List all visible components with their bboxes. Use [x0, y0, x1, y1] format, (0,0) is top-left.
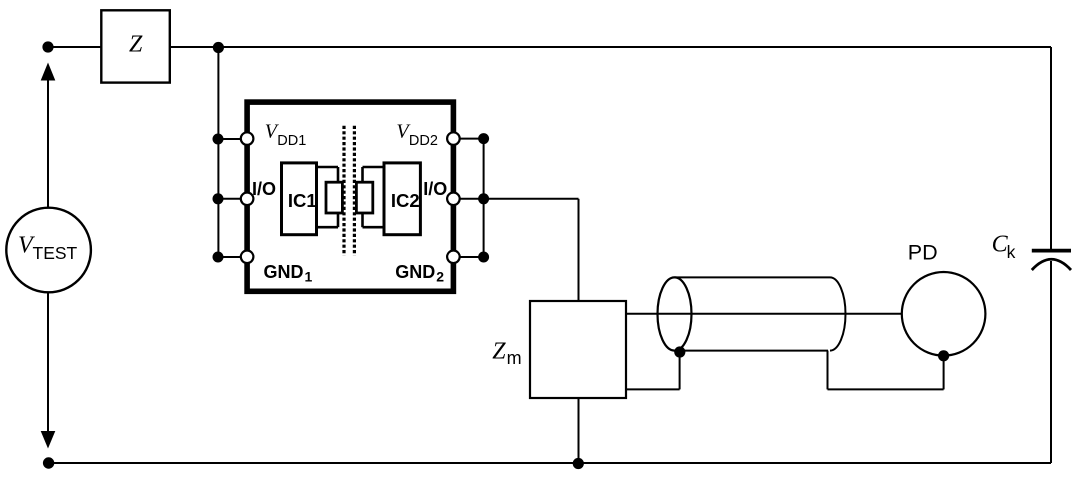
arrowhead up [41, 63, 56, 81]
wire IC2 coupling top [363, 166, 383, 169]
wire stub VDD2 [453, 138, 483, 140]
label Ck [992, 231, 1016, 262]
wire top rail from Z to right corner [170, 46, 1051, 48]
svg-text:Z: Z [129, 31, 143, 57]
label Zm [492, 338, 521, 368]
label VDD1 [265, 120, 307, 149]
svg-text:IC1: IC1 [288, 190, 317, 211]
svg-text:DD2: DD2 [409, 133, 438, 149]
isolation barrier dotted line left [342, 126, 345, 256]
coupling element left [326, 182, 342, 213]
wire stub I/O right [453, 198, 483, 200]
wire center conductor Zm to PD [626, 313, 902, 315]
label GND2 [395, 262, 444, 285]
wire Zm shield vertical [679, 350, 681, 389]
node PD bottom [938, 350, 949, 361]
node left rail GND1 [213, 252, 224, 263]
wire IC2 coupling bottom [363, 226, 383, 229]
wire IC1 coupling bottom [318, 226, 338, 229]
wire PD to shield horizontal [828, 388, 944, 390]
voltage source V_TEST [6, 63, 91, 469]
cable shield top line [675, 276, 831, 278]
wire stub GND1 [218, 256, 247, 258]
node Zm bottom junction [573, 458, 584, 469]
cable shield right end arc [830, 277, 845, 350]
wire PD bottom vertical [943, 356, 945, 390]
svg-text:2: 2 [436, 269, 444, 285]
node bottom-left junction [43, 457, 54, 468]
pin GND2 [447, 250, 460, 263]
cable shield bottom line [675, 350, 829, 352]
wire stub I/O left [218, 198, 247, 200]
wire stub VDD1 [218, 138, 247, 140]
node right rail VDD2 [478, 133, 489, 144]
svg-text:GND: GND [264, 262, 304, 282]
measurement impedance Zm [530, 301, 626, 398]
pin VDD1 [241, 132, 254, 145]
wire source lower shaft [47, 292, 49, 440]
svg-text:DD1: DD1 [277, 133, 306, 149]
svg-text:k: k [1007, 242, 1016, 262]
wire Zm to bottom rail [578, 398, 580, 463]
isolator package outline U1 [247, 102, 453, 291]
wire left rail [217, 48, 219, 258]
node left rail I/O [213, 193, 224, 204]
svg-text:I/O: I/O [252, 179, 276, 199]
svg-text:m: m [507, 348, 522, 368]
label GND1 [264, 262, 313, 285]
svg-text:TEST: TEST [33, 243, 78, 263]
capacitor Ck top plate [1032, 249, 1071, 253]
pin I/O right [447, 193, 460, 206]
cable shield left ellipse [658, 277, 692, 350]
wire source upper shaft [47, 72, 49, 208]
wire right rail upper (top corner to Ck) [1050, 47, 1052, 250]
photodetector PD [902, 272, 986, 356]
wire bottom rail [48, 462, 1051, 464]
svg-text:1: 1 [305, 269, 313, 285]
node right rail GND2 [478, 252, 489, 263]
wire Zm shield lower horizontal [626, 388, 680, 390]
node top-left junction [42, 41, 53, 52]
label VDD2 [396, 120, 438, 149]
wire I/O to Zm horizontal [484, 198, 579, 200]
svg-text:IC2: IC2 [391, 190, 420, 211]
wire right rail [483, 139, 485, 257]
node junction above left rail [213, 42, 224, 53]
svg-text:I/O: I/O [423, 179, 447, 199]
node shield connection [674, 346, 685, 357]
capacitor Ck curved plate [1032, 259, 1071, 270]
wire stub GND2 [453, 256, 483, 258]
svg-text:GND: GND [395, 262, 435, 282]
svg-text:Z: Z [492, 338, 506, 364]
wire I/O to Zm vertical [578, 199, 580, 301]
impedance Z [101, 10, 170, 82]
wire right rail lower (Ck to bottom corner) [1050, 261, 1052, 463]
wire IC2 coupling vertical [361, 167, 364, 227]
node left rail VDD1 [213, 134, 224, 145]
node right rail I/O [478, 193, 489, 204]
isolation barrier dotted line right [353, 126, 356, 256]
pin GND1 [241, 250, 254, 263]
chip IC1 [282, 163, 317, 235]
coupling element right [356, 182, 372, 213]
pin VDD2 [447, 132, 460, 145]
source circle [6, 208, 91, 293]
pin I/O left [241, 193, 254, 206]
wire top rail left segment [48, 46, 101, 48]
wire shield right vertical [827, 351, 829, 390]
arrowhead down [41, 431, 56, 449]
wire IC1 coupling vertical [337, 167, 340, 227]
chip IC2 [384, 163, 420, 235]
svg-text:PD: PD [908, 241, 938, 265]
wire IC1 coupling top [318, 166, 338, 169]
